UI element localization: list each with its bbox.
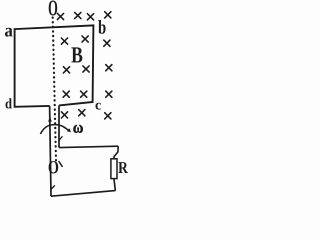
axis OO' dotted line — [53, 18, 56, 161]
field cross — [105, 113, 111, 119]
label O — [49, 1, 57, 16]
label R — [118, 162, 128, 173]
field cross — [61, 38, 67, 44]
field cross — [106, 91, 112, 97]
field cross — [75, 12, 81, 18]
barb at bottom-left corner — [51, 185, 55, 189]
resistor R box — [111, 159, 117, 179]
label c — [96, 103, 101, 110]
label b — [98, 20, 105, 34]
field cross — [106, 65, 112, 71]
wire below resistor — [114, 179, 116, 191]
wire loop abcd (rotating coil) — [15, 25, 94, 106]
prime of O' — [59, 162, 62, 167]
label d — [6, 98, 12, 108]
wire top of external circuit — [59, 146, 118, 147]
label O_prime — [49, 161, 59, 173]
field cross — [57, 13, 63, 19]
label omega — [73, 125, 82, 133]
label B — [71, 47, 82, 62]
field cross — [87, 14, 93, 20]
field cross — [82, 36, 88, 42]
rotation arc with arrow (omega) — [40, 125, 68, 134]
field cross — [79, 110, 85, 116]
current arrow on left lead — [48, 117, 52, 122]
wire right lead down to circuit top — [58, 105, 60, 147]
label a — [5, 28, 13, 37]
wire bottom of external circuit — [51, 191, 115, 197]
barb at right lead corner — [59, 136, 63, 140]
field cross — [81, 91, 87, 97]
field cross — [63, 67, 69, 73]
field cross — [63, 91, 69, 97]
field cross — [104, 40, 110, 46]
field cross — [105, 12, 111, 18]
wire left lead down to external circuit — [50, 106, 51, 196]
field cross — [83, 66, 89, 72]
field cross — [61, 112, 67, 118]
wire right side down to resistor — [114, 146, 118, 159]
